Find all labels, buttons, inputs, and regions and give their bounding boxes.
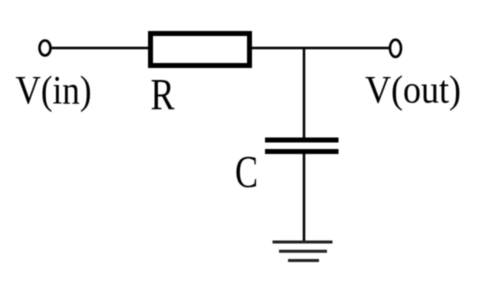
ground: middle bar: [279, 250, 327, 253]
svg-text:R: R: [151, 70, 176, 119]
wire: input terminal to resistor: [51, 47, 151, 50]
capacitor C top plate: [265, 138, 339, 143]
wire: capacitor bottom plate to ground: [303, 154, 306, 241]
svg-text:V(out): V(out): [365, 69, 461, 112]
svg-text:V(in): V(in): [16, 68, 92, 113]
wire: node A to output terminal: [304, 47, 390, 50]
terminal: V(in) input circle: [40, 41, 51, 56]
wire: resistor to node A: [252, 47, 304, 50]
wire: node A down to capacitor top plate: [303, 48, 306, 138]
ground: top bar: [273, 241, 333, 244]
svg-text:C: C: [235, 147, 258, 197]
capacitor C bottom plate: [265, 149, 339, 154]
resistor R1 body: [151, 34, 250, 66]
terminal: V(out) output circle: [390, 40, 401, 57]
ground: bottom bar: [288, 259, 319, 262]
